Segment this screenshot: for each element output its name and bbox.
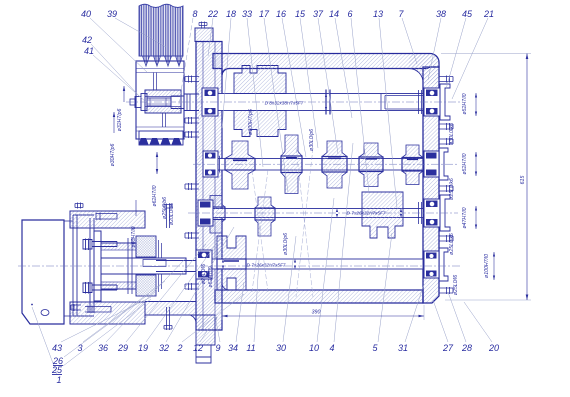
belt: [139, 4, 183, 66]
threaded bushing bottom: [136, 275, 156, 296]
left wall bottom foot: [191, 315, 215, 345]
svg-text:38: 38: [436, 9, 446, 19]
assembly vertical bolt top flange: [164, 204, 172, 229]
svg-text:13: 13: [373, 9, 383, 19]
shaft 3: [200, 209, 423, 218]
svg-text:21: 21: [483, 9, 494, 19]
wall dims near assembly: [201, 264, 214, 288]
svg-text:19: 19: [138, 343, 148, 353]
housing inner cavity outline: [222, 69, 423, 291]
retaining lines right of bushings: [159, 240, 162, 292]
svg-text:ø25L0/k6: ø25L0/k6: [449, 233, 455, 255]
assembly top flange block: [70, 211, 145, 228]
svg-text:16: 16: [276, 9, 286, 19]
centerline shaft1: [126, 101, 460, 103]
svg-text:17: 17: [259, 9, 270, 19]
svg-text:27: 27: [442, 343, 454, 353]
svg-text:ø25L0/l6: ø25L0/l6: [453, 275, 459, 295]
svg-text:ø100H7/p6: ø100H7/p6: [248, 109, 254, 135]
gear G5 shaft2: [402, 145, 423, 185]
centerline shaft4: [18, 265, 460, 267]
coupling flange disc: [94, 231, 101, 301]
centerline shaft2: [193, 163, 458, 165]
svg-text:37: 37: [313, 9, 324, 19]
svg-text:D 8x32x38H7x5F7: D 8x32x38H7x5F7: [265, 101, 304, 106]
gear cluster on shaft 1 upper half: [234, 66, 286, 94]
bottom mounting plate to wall: [145, 302, 196, 316]
svg-text:20: 20: [488, 343, 499, 353]
svg-text:25: 25: [51, 365, 63, 375]
left bearing shaft3: [198, 200, 213, 226]
svg-text:4: 4: [329, 343, 334, 353]
right bearing shaft2: [424, 148, 448, 180]
callout numbers top row: [81, 9, 494, 56]
shaft 2: [218, 159, 423, 171]
svg-text:ø32H7/p6: ø32H7/p6: [117, 109, 123, 132]
left dim shaft-seat: [110, 112, 116, 166]
svg-text:1: 1: [56, 375, 61, 385]
threaded bushing top: [136, 236, 156, 257]
svg-text:28: 28: [461, 343, 472, 353]
svg-text:32: 32: [159, 343, 169, 353]
right dia labels: [449, 93, 495, 295]
stud on top-left flange block: [199, 22, 207, 29]
bracket plate bottom-left: [22, 220, 73, 324]
svg-text:10: 10: [309, 343, 319, 353]
svg-text:ø52H7/l0: ø52H7/l0: [462, 93, 468, 114]
gear D slotted block shaft4: [217, 236, 246, 259]
assembly vertical plates: [73, 215, 94, 316]
housing right wall: [423, 67, 439, 303]
dimension 615: [441, 54, 531, 301]
left wall flange block top: [195, 28, 213, 42]
svg-text:14: 14: [329, 9, 339, 19]
pulley bolt: [130, 94, 171, 111]
pulley hub: [145, 90, 181, 113]
gear C big block shaft3 with shifter notch: [362, 192, 403, 238]
callout numbers bottom row: [51, 343, 499, 385]
svg-text:31: 31: [398, 343, 408, 353]
housing top wall: [213, 54, 439, 76]
svg-text:42: 42: [82, 35, 92, 45]
assembly bottom flange block: [70, 302, 145, 324]
left dim pulley: [117, 86, 125, 131]
pulley web spokes: [154, 73, 166, 128]
gear A shaft3: [207, 196, 225, 234]
svg-text:33: 33: [242, 9, 252, 19]
pulley rim: [136, 61, 184, 139]
leader arrow 9: [215, 316, 218, 321]
svg-text:ø30L0/k6: ø30L0/k6: [449, 123, 455, 145]
svg-text:18: 18: [226, 9, 236, 19]
svg-text:45: 45: [462, 9, 473, 19]
coupling inner shaft: [101, 238, 196, 294]
gear B shaft3: [255, 197, 275, 236]
left wall studs: [185, 76, 199, 291]
svg-text:ø30H7/p6: ø30H7/p6: [110, 144, 116, 167]
svg-text:9: 9: [215, 343, 220, 353]
left bearing shaft1: [202, 88, 218, 116]
left dim group: [131, 152, 175, 248]
gear G3 shaft2: [322, 141, 347, 188]
svg-text:6: 6: [347, 9, 352, 19]
centerline shaft3: [188, 212, 458, 214]
collar shaft3 left: [202, 206, 205, 221]
assembly top studs: [75, 203, 117, 221]
gear key bars shaft2: [233, 158, 418, 161]
svg-text:2: 2: [176, 343, 182, 353]
seal rings input shaft: [187, 94, 190, 111]
svg-text:D-7x26x32H7x5F7: D-7x26x32H7x5F7: [246, 263, 285, 268]
assembly vertical bolt bottom flange: [164, 307, 172, 330]
right bearing shaft1: [424, 84, 450, 120]
svg-text:22: 22: [207, 9, 218, 19]
svg-text:ø25L0/l6: ø25L0/l6: [201, 264, 207, 284]
left wall inner lines: [203, 42, 215, 331]
left bearing shaft4: [196, 250, 212, 279]
svg-text:390: 390: [312, 310, 321, 316]
svg-text:34: 34: [228, 343, 238, 353]
svg-text:15: 15: [295, 9, 306, 19]
svg-text:8: 8: [192, 9, 197, 19]
svg-text:30: 30: [276, 343, 286, 353]
svg-text:41: 41: [84, 46, 94, 56]
coupling bolt bottom: [83, 282, 117, 294]
right bearing shaft3: [424, 195, 450, 231]
coupling cylinder: [101, 243, 136, 289]
svg-text:29: 29: [117, 343, 128, 353]
svg-text:ø30L0/p6: ø30L0/p6: [283, 233, 289, 255]
oil disc shaft3 right: [419, 202, 422, 224]
input shaft pulley to wall: [171, 94, 199, 111]
interior dia labels: [248, 109, 315, 255]
svg-text:ø62H7/l0: ø62H7/l0: [208, 266, 214, 287]
svg-text:ø47H7/l0: ø47H7/l0: [462, 207, 468, 228]
svg-text:ø100H7/l0: ø100H7/l0: [484, 254, 490, 278]
svg-text:ø52H7/l0: ø52H7/l0: [462, 153, 468, 174]
collar shaft2 left: [217, 156, 220, 173]
shaft 4: [210, 259, 423, 269]
svg-text:40: 40: [81, 9, 91, 19]
svg-text:ø20L0/b6: ø20L0/b6: [169, 203, 175, 225]
svg-text:ø60H7/l0: ø60H7/l0: [131, 226, 137, 247]
spline dim arrows: [222, 94, 402, 270]
svg-text:ø25L0/b6: ø25L0/b6: [162, 197, 168, 219]
dimension 390: [222, 303, 424, 320]
right wall studs: [439, 76, 453, 295]
svg-text:43: 43: [52, 343, 62, 353]
svg-text:D-7x26x32H7x5F7: D-7x26x32H7x5F7: [346, 211, 385, 216]
right bearing shaft4: [424, 248, 448, 281]
gear G2 shaft2: [281, 135, 302, 194]
assembly bottom studs: [71, 304, 111, 313]
svg-text:ø25L0/k6: ø25L0/k6: [449, 178, 455, 200]
leader lines bottom: [32, 143, 492, 374]
mesh diagonal centerlines: [296, 148, 313, 297]
svg-text:615: 615: [520, 176, 526, 185]
svg-text:12: 12: [193, 343, 203, 353]
svg-text:11: 11: [246, 343, 255, 353]
left bearing shaft2: [203, 151, 218, 177]
svg-text:36: 36: [98, 343, 108, 353]
oil disc shaft1 right: [419, 90, 422, 114]
pulley lower v-grooves: [139, 131, 184, 145]
svg-text:ø30L0/p6: ø30L0/p6: [309, 129, 315, 151]
shaft 1: [215, 90, 423, 115]
gear G4 shaft2: [359, 143, 383, 187]
svg-text:39: 39: [107, 9, 117, 19]
gear cluster on shaft 1 lower half: [234, 111, 286, 137]
svg-text:ø62H7/l0: ø62H7/l0: [152, 185, 158, 206]
left wall: [196, 42, 222, 331]
gear G1 shaft2: [225, 141, 255, 189]
coupling bolt top: [83, 239, 117, 251]
leader lines top: [90, 18, 488, 208]
svg-text:3: 3: [77, 343, 82, 353]
housing bottom wall: [215, 290, 423, 303]
